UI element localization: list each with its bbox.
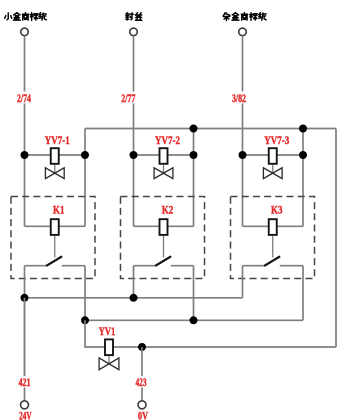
svg-text:YV7-1: YV7-1: [45, 133, 70, 147]
input terminal circle YV7-3 column: [239, 28, 247, 36]
svg-text:K1: K1: [53, 203, 65, 217]
wire input column 2 upper segment: [133, 36, 135, 92]
junction dot YV1 output / return: [138, 343, 146, 351]
dashed enclosure relay K1: [11, 197, 95, 279]
wire coil row column 2: [134, 225, 194, 227]
wire valve row column 3: [243, 154, 304, 156]
valve YV7-1 stem: [54, 165, 56, 174]
junction dot node column 1 right / valve row: [81, 151, 89, 159]
svg-text:24V: 24V: [19, 410, 32, 420]
junction dot rail / column 3 riser: [299, 125, 307, 133]
solenoid valve YV7-2 coil body: [160, 148, 168, 164]
wire right-side return loop vertical: [335, 129, 337, 348]
wire valve YV1 output lead: [114, 346, 142, 348]
wire bus2 down-feed to valve YV1: [85, 320, 104, 347]
relay coil K1 body: [51, 219, 59, 235]
svg-text:YV1: YV1: [99, 324, 116, 338]
junction dot node column 1 left / valve row: [21, 151, 29, 159]
junction dot node column 3 left / valve row: [239, 151, 247, 159]
relay coil K3 body: [269, 219, 277, 235]
dashed enclosure relay K2: [121, 197, 205, 279]
wire 0V terminal drop lower: [141, 388, 143, 401]
wire coil row column 3: [243, 225, 304, 227]
svg-text:423: 423: [136, 377, 147, 389]
wire right riser column 2 (rail to coil row): [193, 129, 195, 227]
wire column1 contact-right drop: [84, 266, 86, 321]
wire valve row column 1: [25, 154, 86, 156]
junction dot node column 3 right / valve row: [299, 151, 307, 159]
wire 24V terminal drop upper: [24, 298, 26, 376]
wire column3 contact-right drop: [302, 266, 304, 321]
svg-text:K3: K3: [271, 203, 283, 217]
contact K2 left wire segment: [134, 265, 156, 267]
junction dot node column 2 left / valve row: [130, 151, 138, 159]
contact K1 right wire segment: [62, 265, 85, 267]
solenoid valve YV1 coil body: [105, 339, 113, 355]
svg-text:421: 421: [19, 377, 31, 389]
mechanical link K1 coil to contact: [54, 236, 56, 258]
wire input column 1 upper segment: [24, 36, 26, 92]
solenoid valve YV7-1 coil body: [51, 148, 59, 164]
valve YV1 stem: [108, 356, 110, 364]
wire input column 3 upper segment: [242, 36, 244, 92]
wire valve row column 2: [134, 154, 194, 156]
contact K3 blade: [264, 256, 280, 266]
terminal circle 0V: [138, 401, 146, 409]
wire column2 contact-left drop: [133, 266, 135, 298]
junction dot bus1 / column1: [21, 294, 29, 302]
junction dot bus2 / column2: [190, 316, 198, 324]
wire top 0V rail: [85, 128, 336, 130]
wire contact output bus (bus2): [85, 319, 303, 321]
contact K1 blade: [46, 256, 62, 266]
svg-text:0V: 0V: [138, 410, 148, 420]
wire input column 3 lower segment down to coil row: [242, 104, 244, 227]
junction dot bus1 / column2: [130, 294, 138, 302]
wire 24V terminal drop lower: [24, 388, 26, 401]
svg-text:YV7-3: YV7-3: [264, 133, 289, 147]
svg-text:K2: K2: [162, 203, 174, 217]
contact K3 left wire segment: [243, 265, 265, 267]
valve YV1 bowtie body: [99, 358, 119, 370]
heading label 封签 (seal label): [126, 13, 142, 21]
solenoid valve YV7-3 coil body: [269, 148, 277, 164]
wire column2 contact-right drop: [193, 266, 195, 321]
contact K3 right wire segment: [280, 265, 303, 267]
svg-text:3/82: 3/82: [232, 93, 246, 105]
terminal circle 24V: [21, 401, 29, 409]
valve YV7-2 bowtie body: [154, 168, 173, 179]
input terminal circle YV7-1 column: [21, 28, 29, 36]
contact K1 left wire segment: [25, 265, 47, 267]
wire input column 1 lower segment down to coil row: [24, 104, 26, 227]
contact K2 right wire segment: [171, 265, 194, 267]
contact K2 blade: [155, 256, 171, 266]
wire 24V bus (bus1): [25, 297, 243, 299]
junction dot node column 2 right / valve row: [190, 151, 198, 159]
wire column1 contact-left drop to 24V bus: [24, 266, 26, 376]
heading label 条盒商标纸 (carton trademark paper): [223, 13, 266, 21]
wire right riser column 3 (rail to coil row): [302, 129, 304, 227]
input terminal circle YV7-2 column: [130, 28, 138, 36]
wire 0V terminal drop upper: [141, 347, 143, 376]
wire return line to YV1 output: [142, 346, 336, 348]
junction dot bus2 / column1: [81, 316, 89, 324]
relay coil K2 body: [160, 219, 168, 235]
dashed enclosure relay K3: [231, 197, 315, 279]
valve YV7-1 bowtie body: [45, 168, 64, 179]
svg-text:2/74: 2/74: [17, 93, 31, 105]
svg-text:2/77: 2/77: [121, 93, 135, 105]
wire column3 contact-left drop: [242, 266, 244, 298]
mechanical link K3 coil to contact: [272, 236, 274, 258]
junction dot rail / column 2 riser: [190, 125, 198, 133]
wire input column 2 lower segment down to coil row: [133, 104, 135, 227]
wire coil row column 1: [25, 225, 86, 227]
heading label 小盒商标纸 (small-box trademark paper): [5, 13, 47, 21]
mechanical link K2 coil to contact: [163, 236, 165, 258]
svg-text:YV7-2: YV7-2: [155, 133, 180, 147]
wire right riser column 1 (rail to coil row): [84, 129, 86, 227]
valve YV7-3 stem: [272, 165, 274, 174]
valve YV7-3 bowtie body: [263, 168, 282, 179]
valve YV7-2 stem: [163, 165, 165, 174]
